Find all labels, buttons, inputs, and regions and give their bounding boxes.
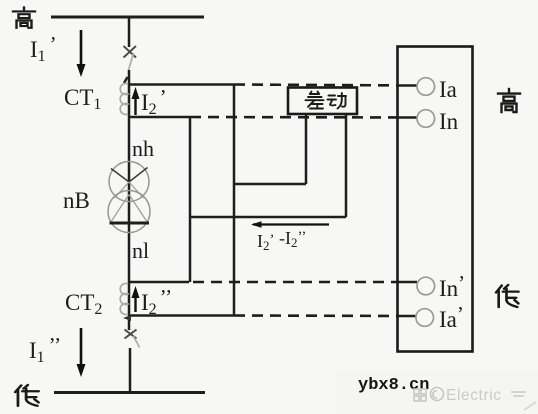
stub wire to terminal In' xyxy=(398,281,418,284)
corner mark xyxy=(524,402,536,410)
wire: bus to breaker QF1 xyxy=(128,17,131,47)
current arrow I2'' xyxy=(132,286,140,312)
relay terminal panel box xyxy=(398,47,473,352)
terminal In xyxy=(417,110,435,128)
label 高 (relay HV side) xyxy=(498,89,520,112)
stub wire to terminal Ia' xyxy=(398,315,418,318)
wire: coil left terminal to node x=234 xyxy=(234,183,306,186)
terminal Ia' xyxy=(416,309,434,327)
wire: CT1 lead a to relay Ia (dashed cable) xyxy=(234,85,416,86)
wire: CT1 lead a (solid) xyxy=(130,83,234,86)
terminal Ia xyxy=(417,78,435,96)
breaker QF2 (open contact) xyxy=(125,330,140,348)
wire: coil right terminal down xyxy=(345,114,348,217)
wire: breaker QF1 to transformer xyxy=(128,70,131,330)
wire: breaker QF2 to bottom bus xyxy=(129,348,132,392)
CT1 polarity tick xyxy=(124,77,128,83)
svg-text:nl: nl xyxy=(132,238,149,263)
wire: CT1 lead n to relay In (dashed cable) xyxy=(190,116,416,119)
label 低 (relay LV side) xyxy=(496,285,518,307)
current arrow I1'' xyxy=(77,328,86,377)
terminal In' xyxy=(417,277,435,295)
svg-text:In: In xyxy=(439,109,459,134)
wire: CT2 lead a (solid) xyxy=(130,314,234,317)
wire: CT2 lead n (solid) xyxy=(130,281,189,284)
label 动 xyxy=(328,93,347,109)
differential current arrow I2'-I2'' xyxy=(251,221,329,227)
svg-text:nB: nB xyxy=(63,188,90,213)
label 低 (low-voltage side, bottom-left) xyxy=(15,385,38,406)
wire: CT2 lead a to relay Ia' (dashed cable) xyxy=(234,314,416,317)
label 差 xyxy=(306,92,324,109)
wire: coil right terminal to node x=190 xyxy=(190,216,346,219)
stub wire to terminal Ia xyxy=(398,84,418,87)
label 高 (high-voltage side, top-left) xyxy=(13,7,35,27)
wire: vertical link x=234 (Ia circuit) xyxy=(233,85,236,316)
current arrow I1' xyxy=(77,30,86,77)
relay coil box 差动 (differential) xyxy=(288,88,357,115)
wire: vertical link x=190 (In circuit) xyxy=(189,117,192,282)
stub wire to terminal In xyxy=(398,116,418,119)
breaker QF1 (open contact) xyxy=(124,46,137,70)
watermark electric logo xyxy=(414,388,444,402)
CT1 coil xyxy=(120,84,128,115)
wire: coil left terminal down xyxy=(305,114,308,184)
wire: CT2 lead n to relay In' (dashed cable) xyxy=(193,281,416,284)
bus high (top busbar) xyxy=(51,16,204,19)
transformer nB HV winding (circle with star) xyxy=(109,162,149,202)
bus low (bottom busbar) xyxy=(54,391,205,394)
transformer nB LV winding (circle with delta) xyxy=(108,191,150,233)
current arrow I2' xyxy=(132,87,140,115)
arrowhead at CT2 lead a xyxy=(123,315,131,321)
svg-text:nh: nh xyxy=(132,136,154,161)
CT2 coil xyxy=(120,284,128,315)
svg-text:Electric: Electric xyxy=(446,387,502,404)
svg-text:Ia: Ia xyxy=(439,77,457,102)
wire: CT1 lead n (solid) xyxy=(130,116,190,119)
